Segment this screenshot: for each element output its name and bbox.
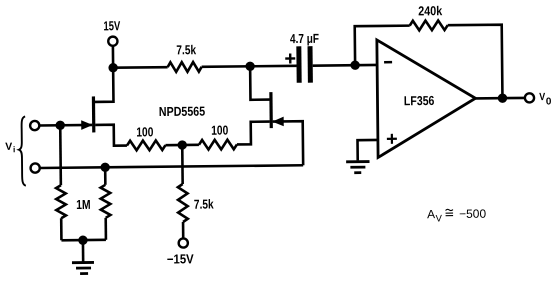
svg-text:7.5k: 7.5k — [194, 196, 215, 211]
svg-text:100: 100 — [211, 123, 228, 138]
svg-text:V: V — [436, 213, 443, 224]
svg-text:−500: −500 — [459, 207, 487, 221]
svg-text:7.5k: 7.5k — [176, 42, 196, 57]
svg-text:LF356: LF356 — [404, 93, 435, 108]
svg-text:−15V: −15V — [167, 251, 194, 266]
svg-text:1M: 1M — [76, 197, 91, 212]
svg-text:NPD5565: NPD5565 — [159, 104, 205, 119]
svg-text:V: V — [539, 91, 545, 103]
svg-text:15V: 15V — [103, 18, 120, 33]
svg-text:V: V — [5, 141, 12, 153]
svg-text:i: i — [13, 144, 15, 154]
svg-text:A: A — [427, 207, 435, 221]
svg-text:0: 0 — [546, 96, 552, 107]
svg-text:4.7 μF: 4.7 μF — [290, 31, 319, 46]
svg-text:100: 100 — [136, 124, 153, 139]
svg-text:240k: 240k — [418, 3, 443, 18]
